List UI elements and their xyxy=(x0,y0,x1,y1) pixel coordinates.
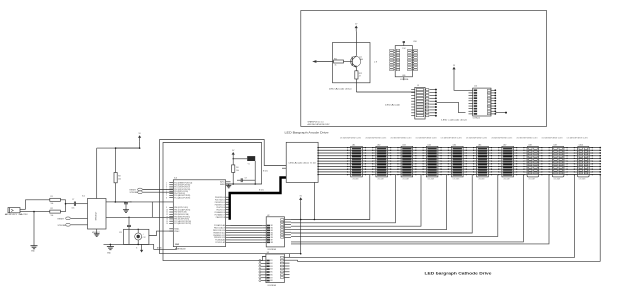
pin: block aux stub xyxy=(282,167,286,169)
pin: U10 top pin xyxy=(403,42,405,45)
svg-text:PC5/SCL A5: PC5/SCL A5 xyxy=(215,241,224,244)
wire: RESET tag to IC1 xyxy=(71,217,88,219)
resistor R12 47 (emitter) xyxy=(355,71,358,79)
wire: cathode stair LB2 xyxy=(291,175,395,223)
svg-text:10k: 10k xyxy=(51,215,54,217)
pins: U2 left (from MCU) xyxy=(262,225,266,227)
svg-text:LED Anode: LED Anode xyxy=(385,104,401,107)
node: drive input arrow xyxy=(312,60,316,63)
svg-text:RESET: RESET xyxy=(130,190,137,192)
svg-text:GND: GND xyxy=(402,75,405,77)
svg-text:J10: J10 xyxy=(474,85,477,87)
svg-text:LB4: LB4 xyxy=(428,144,431,146)
svg-text:5: 5 xyxy=(166,191,167,193)
svg-text:6: 6 xyxy=(166,193,167,195)
wire: cathode stair LB5 xyxy=(291,175,472,233)
svg-text:C12: C12 xyxy=(143,237,146,239)
wire: cathode stair LB4 xyxy=(291,175,447,230)
svg-text:ATMEGA168: ATMEGA168 xyxy=(175,248,185,251)
wire: out node branch to C10 xyxy=(115,201,126,203)
wire: rail to MCU ground pin xyxy=(149,244,177,249)
svg-text:7: 7 xyxy=(166,195,167,197)
wire: rail down to IC1 VCC xyxy=(96,148,98,195)
wire: R2 to sum node xyxy=(60,204,65,212)
svg-text:LB2: LB2 xyxy=(377,144,380,146)
svg-text:3: 3 xyxy=(166,187,167,189)
svg-text:1k: 1k xyxy=(335,65,337,67)
svg-text:14: 14 xyxy=(166,219,168,221)
wire: sum to C7 xyxy=(66,203,75,205)
block: LED Anode drive x 10 xyxy=(286,142,318,182)
crystal Y1 (hatched) xyxy=(247,156,255,161)
svg-text:12: 12 xyxy=(166,214,168,216)
node: rail-R3 junction xyxy=(115,147,117,149)
svg-text:LED BARGRAPH ARRAY 10-SEG: LED BARGRAPH ARRAY 10-SEG xyxy=(542,137,564,140)
sub-circuit box: anode driver cell xyxy=(333,43,371,83)
svg-text:R3: R3 xyxy=(118,176,120,178)
svg-text:11: 11 xyxy=(166,212,168,214)
svg-text:9: 9 xyxy=(166,207,167,209)
svg-text:LED BARGRAPH ARRAY 10-SEG: LED BARGRAPH ARRAY 10-SEG xyxy=(466,137,488,140)
power flag VCC (cathode header) xyxy=(453,69,455,74)
svg-text:ULN2803A: ULN2803A xyxy=(268,248,277,251)
svg-text:IN2: IN2 xyxy=(271,228,274,230)
pins: U10 left and right pin stubs xyxy=(394,49,395,51)
svg-text:IN2: IN2 xyxy=(270,263,273,265)
node: reset net junction xyxy=(232,183,234,185)
wire: jack sleeve to ground xyxy=(33,212,35,244)
wire: R1 to sum node xyxy=(60,200,65,204)
svg-text:IN8: IN8 xyxy=(270,280,273,282)
ground rail below group xyxy=(104,243,149,245)
svg-text:IC1: IC1 xyxy=(82,196,85,198)
svg-text:ANODE/CATHODE DRV: ANODE/CATHODE DRV xyxy=(308,123,331,126)
svg-text:10: 10 xyxy=(166,209,168,211)
svg-text:IN5: IN5 xyxy=(270,272,273,274)
pins: MCU XTAL pins xyxy=(169,228,173,230)
svg-text:C7: C7 xyxy=(72,199,74,201)
wire: group to MCU xyxy=(149,231,173,235)
wire: VCC to Q collector xyxy=(355,31,357,56)
wire: LED Anode header to cathode header xyxy=(437,102,466,112)
resistor R2 (left mix bottom) xyxy=(50,210,61,213)
pins: MCU right lower pins to U2 xyxy=(226,225,231,227)
wire: input to R base resistor xyxy=(316,61,333,63)
wire: RESET tag to MCU xyxy=(143,189,174,191)
svg-text:MSGEQ7: MSGEQ7 xyxy=(96,211,98,220)
pins: U2 right (stair) xyxy=(285,219,292,221)
wire: IC1 strobe feed line xyxy=(106,216,173,218)
frame: anode drive panel border xyxy=(301,11,547,127)
pin: MCU AREF xyxy=(226,183,231,185)
pin: MCU AVCC xyxy=(226,181,231,183)
svg-text:LB7: LB7 xyxy=(503,144,506,146)
svg-text:IN6: IN6 xyxy=(271,237,274,239)
svg-text:16: 16 xyxy=(166,223,168,225)
svg-text:IC3: IC3 xyxy=(174,178,177,180)
svg-text:STROBE: STROBE xyxy=(58,225,67,227)
svg-text:C9: C9 xyxy=(245,178,247,180)
svg-text:LED Anode drive X 10: LED Anode drive X 10 xyxy=(289,161,316,164)
svg-text:LB1: LB1 xyxy=(352,144,355,146)
wire: VCC down to U3 xyxy=(300,201,302,254)
node: C11 tap xyxy=(128,217,129,218)
power flag VCC (anode cell) xyxy=(355,28,357,32)
decoupling group box xyxy=(124,229,149,244)
wire: cathode stair LB6 xyxy=(291,175,498,237)
VCC rail (analog) xyxy=(97,147,140,149)
svg-text:R11: R11 xyxy=(334,58,337,60)
bus wires: anode lines to bargraphs xyxy=(318,147,600,149)
node: VCC crossing stair line 1 xyxy=(300,219,302,221)
wire: cathode stair LB9 xyxy=(290,175,575,258)
wire: R12 down to anode rail xyxy=(355,79,357,92)
svg-text:4: 4 xyxy=(166,189,167,191)
svg-text:8: 8 xyxy=(166,197,167,199)
svg-text:XTAL2: XTAL2 xyxy=(174,230,179,233)
svg-text:22k: 22k xyxy=(118,179,121,181)
pins: U3 left no-connect stubs xyxy=(261,260,266,262)
svg-text:U10: U10 xyxy=(413,41,416,43)
connector J1 AUDIO JACK xyxy=(8,208,20,213)
resistor R1 (left mix top) xyxy=(50,198,61,201)
svg-text:IN3: IN3 xyxy=(271,230,274,232)
power flag VCC (cathode drivers) xyxy=(300,200,302,202)
wire: crystal right vertical xyxy=(254,161,256,184)
svg-text:IN7: IN7 xyxy=(270,277,273,279)
wire: VCC to header J10 xyxy=(454,74,469,91)
svg-text:LED BARGRAPH ARRAY 10-SEG: LED BARGRAPH ARRAY 10-SEG xyxy=(416,137,438,140)
svg-text:1: 1 xyxy=(166,182,167,184)
svg-text:LED cathode drive: LED cathode drive xyxy=(441,119,468,122)
resistor R4 10k (reset pullup) xyxy=(232,165,235,173)
wire: block bottom to stair xyxy=(313,182,315,219)
svg-text:STROBE: STROBE xyxy=(130,192,139,194)
wire: J10 output xyxy=(495,112,506,114)
svg-text:3906: 3906 xyxy=(359,59,363,61)
svg-text:LED BARGRAPH ARRAY 10-SEG: LED BARGRAPH ARRAY 10-SEG xyxy=(340,137,362,140)
pin: U3 top-left input xyxy=(262,255,266,257)
node: block stub on stair line 1 xyxy=(314,219,316,221)
svg-text:R4: R4 xyxy=(236,167,238,169)
wire: R3 to out node xyxy=(115,183,117,202)
svg-text:IN5: IN5 xyxy=(271,235,274,237)
resistor R3 22k xyxy=(114,173,117,183)
pins: MCU left group B xyxy=(169,206,173,208)
power flag down (group) xyxy=(141,244,143,250)
bus: MCU PD to anode block (thick) xyxy=(230,178,287,220)
bus stubs: module bottoms to stair verticals xyxy=(366,174,370,176)
svg-text:15: 15 xyxy=(166,221,168,223)
svg-text:IN1: IN1 xyxy=(270,260,273,262)
wire: cap to R4 xyxy=(232,159,234,165)
wire: jack tip to R1 xyxy=(26,200,50,210)
wire: VCC loop outer xyxy=(160,140,301,254)
svg-text:LB5: LB5 xyxy=(453,144,456,146)
node: rail junction xyxy=(139,147,141,149)
wire: U3 pin1 riser to VCC rail xyxy=(288,254,290,258)
svg-text:IN7: IN7 xyxy=(271,240,274,242)
power flag VCC (reset pullup) xyxy=(232,154,234,156)
ground (audio jack) xyxy=(33,244,35,246)
wire: cathode stair LB3 xyxy=(291,175,421,227)
wire: R11 to Q base xyxy=(344,61,353,63)
capacitor C8 (reset) xyxy=(232,157,234,159)
wire: rail down to R3 xyxy=(115,148,117,172)
wire: IC1 OUT to node xyxy=(106,201,115,203)
pins: U3 right (stair) xyxy=(284,256,289,258)
pins: MCU left group A xyxy=(169,182,173,184)
svg-text:AUDIO JACK: AUDIO JACK xyxy=(5,213,29,216)
capacitor C7 (input coupling) xyxy=(73,202,75,206)
capacitor C11 (in group) xyxy=(128,217,130,225)
svg-text:IN8: IN8 xyxy=(271,242,274,244)
wire: cathode stair LB10 xyxy=(290,175,601,262)
svg-text:LB6: LB6 xyxy=(478,144,481,146)
svg-text:LB3: LB3 xyxy=(402,144,405,146)
node: crystal rail junction xyxy=(254,183,256,185)
ground (aref cap) xyxy=(228,184,230,186)
svg-text:IN4: IN4 xyxy=(270,269,273,271)
svg-text:10k: 10k xyxy=(236,170,239,172)
wire: anode rail to LED Anode header xyxy=(356,91,415,93)
svg-text:Y1: Y1 xyxy=(248,164,250,166)
wire: STROBE tag to IC1 xyxy=(71,224,88,226)
svg-text:IN6: IN6 xyxy=(270,274,273,276)
wire: out node to MCU ADC0 xyxy=(115,201,173,203)
wire: STROBE tag to MCU xyxy=(143,191,174,193)
wire: R4 to rail xyxy=(232,172,234,184)
node: jack ground junction xyxy=(33,211,35,213)
pin: U10 bottom pin xyxy=(403,77,405,80)
svg-text:AREF: AREF xyxy=(220,183,225,186)
node: loop VCC junction xyxy=(300,253,302,255)
svg-text:LED BARGRAPH ARRAY 10-SEG: LED BARGRAPH ARRAY 10-SEG xyxy=(441,137,463,140)
node: audio sum xyxy=(65,203,67,205)
svg-text:LED Bargraph Anode Drive: LED Bargraph Anode Drive xyxy=(285,131,329,135)
svg-text:LED BARGRAPH ARRAY 10-SEG: LED BARGRAPH ARRAY 10-SEG xyxy=(567,137,589,140)
wire: AREF loop inner xyxy=(163,143,266,261)
wire: Q emitter to R12 xyxy=(355,67,357,70)
wire: out branch riser xyxy=(151,202,153,217)
svg-text:PC1 (ADC1/PCINT9): PC1 (ADC1/PCINT9) xyxy=(174,196,190,199)
svg-text:10k: 10k xyxy=(51,203,54,205)
svg-text:IN3: IN3 xyxy=(270,266,273,268)
svg-text:GND: GND xyxy=(175,244,180,246)
resistor R11 1k (base) xyxy=(334,60,344,63)
capacitor C9 (xtal load) xyxy=(237,179,241,181)
svg-text:2: 2 xyxy=(166,184,167,186)
svg-text:13: 13 xyxy=(166,216,168,218)
power flag VCC (analog rail) xyxy=(139,137,141,141)
wire: C7 to IC1 IN xyxy=(76,203,88,205)
svg-text:LED BARGRAPH ARRAY 10-SEG: LED BARGRAPH ARRAY 10-SEG xyxy=(491,137,513,140)
svg-text:47: 47 xyxy=(359,75,361,77)
pins: MCU right bus pins PD0-PD7 xyxy=(226,196,230,198)
svg-text:RESET: RESET xyxy=(58,218,65,220)
wire: cathode stair LB7 xyxy=(291,175,523,242)
wire: cathode stair LB1 xyxy=(291,175,370,220)
capacitor C12 electrolytic (in group) xyxy=(135,233,142,240)
svg-text:ULN2803A: ULN2803A xyxy=(268,284,277,287)
svg-text:LED Anode drive: LED Anode drive xyxy=(329,88,353,91)
wire: jack ring to R2 xyxy=(34,211,50,213)
node: DC out junction xyxy=(115,201,117,203)
svg-text:LED BARGRAPH ARRAY 10-SEG: LED BARGRAPH ARRAY 10-SEG xyxy=(390,137,412,140)
svg-text:LED BARGRAPH ARRAY 10-SEG: LED BARGRAPH ARRAY 10-SEG xyxy=(365,137,387,140)
pin: IC1 GND bottom xyxy=(96,229,98,232)
wire: cathode stair LB8 xyxy=(291,175,549,244)
node: J10 output terminal xyxy=(505,112,507,114)
wires: MCU to U2 lines xyxy=(231,225,263,227)
ground (C10) xyxy=(125,208,127,210)
svg-text:LED BARGRAPH ARRAY 10-SEG: LED BARGRAPH ARRAY 10-SEG xyxy=(516,137,538,140)
svg-text:IN4: IN4 xyxy=(271,232,274,234)
svg-text:C11: C11 xyxy=(119,232,122,234)
svg-text:R2: R2 xyxy=(51,208,53,210)
svg-text:LED bargraph Cathode Drive: LED bargraph Cathode Drive xyxy=(425,272,492,276)
svg-text:J9: J9 xyxy=(417,85,419,87)
transistor Q1 2N3906 xyxy=(350,56,360,66)
svg-text:C10: C10 xyxy=(128,202,131,204)
capacitor C10 xyxy=(124,202,128,204)
svg-text:PC3 (ADC3/PCINT11): PC3 (ADC3/PCINT11) xyxy=(174,222,191,225)
svg-text:IN1: IN1 xyxy=(271,225,274,227)
svg-text:AGND: AGND xyxy=(157,246,163,249)
svg-text:CONN-10: CONN-10 xyxy=(473,117,480,119)
wire: cluster top to crystal xyxy=(233,158,247,160)
svg-text:10n: 10n xyxy=(72,208,75,210)
svg-text:R1: R1 xyxy=(51,196,53,198)
pin: IC1 VCC top xyxy=(96,195,98,199)
svg-text:ULN2803A: ULN2803A xyxy=(400,78,409,81)
ground (group rail) xyxy=(109,244,111,246)
svg-text:PB0/ICP D8: PB0/ICP D8 xyxy=(216,217,225,219)
